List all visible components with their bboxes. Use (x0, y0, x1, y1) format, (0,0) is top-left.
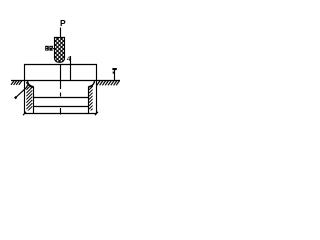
svg-text:P: P (60, 18, 66, 28)
